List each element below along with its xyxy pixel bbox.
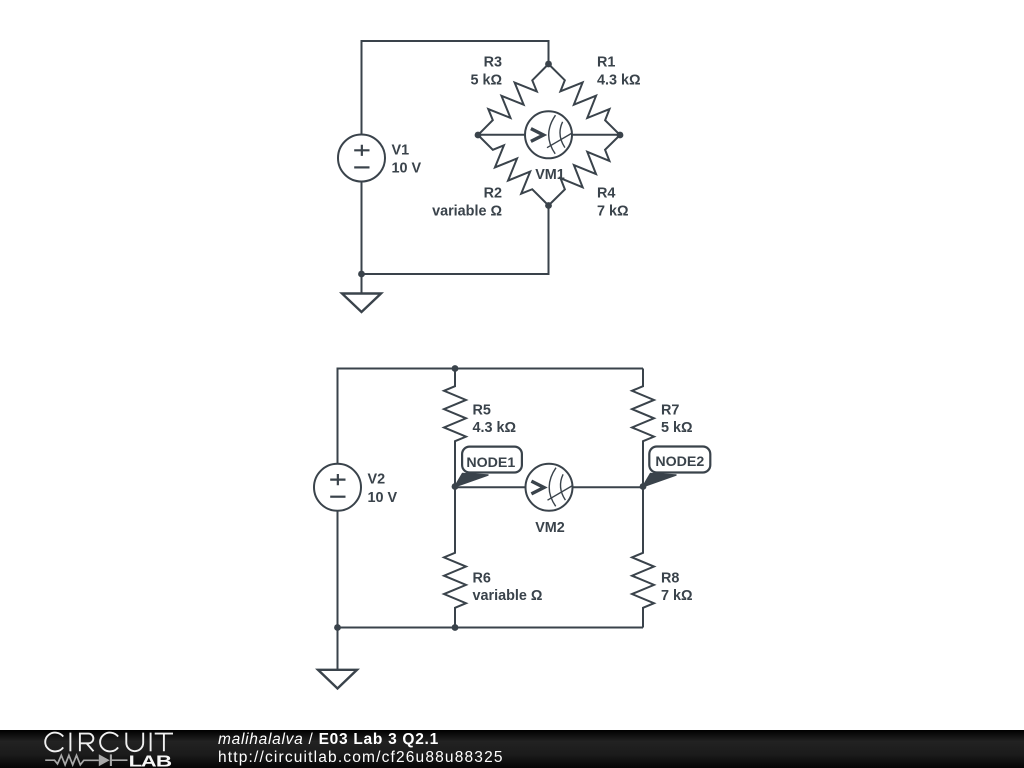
voltage source V1 [338,135,385,182]
svg-text:4.3 kΩ: 4.3 kΩ [473,420,517,436]
svg-text:R2: R2 [484,186,502,202]
resistor R1 [549,64,621,135]
svg-text:V1: V1 [392,142,410,158]
junction NODE2 [640,483,647,490]
svg-text:VM2: VM2 [535,520,565,536]
junction bottom rail V2 [334,624,341,631]
junction bottom rail R6 [452,624,459,631]
svg-text:NODE1: NODE1 [466,455,515,471]
svg-text:4.3 kΩ: 4.3 kΩ [597,72,641,88]
svg-text:variable Ω: variable Ω [432,204,502,220]
svg-text:R5: R5 [473,402,491,418]
voltmeter VM2 [455,464,643,511]
junction bridge top [545,61,552,68]
resistor R5 [444,369,466,487]
svg-text:10 V: 10 V [392,161,422,177]
CircuitLab logo [0,730,220,768]
svg-text:R7: R7 [661,402,679,418]
voltmeter VM1 [478,111,620,158]
svg-text:R1: R1 [597,54,615,70]
svg-text:10 V: 10 V [368,490,398,506]
ground of circuit 1 [342,274,381,312]
ground of circuit 2 [318,628,357,689]
node label NODE2 [643,447,711,487]
svg-text:VM1: VM1 [535,167,565,183]
svg-text:R4: R4 [597,186,615,202]
resistor R7 [632,369,654,487]
resistor R8 [632,487,654,628]
wire V2 bottom rail [338,511,644,628]
junction bridge left [475,132,482,139]
node label NODE1 [455,447,522,487]
svg-text:NODE2: NODE2 [655,454,704,470]
junction top rail [452,365,459,372]
svg-text:R3: R3 [484,54,502,70]
svg-text:B: B [156,753,172,768]
svg-text:7 kΩ: 7 kΩ [661,588,693,604]
svg-text:A: A [141,753,157,768]
junction V1 ground [358,271,365,278]
wire V2 top rail [338,369,644,464]
wire V1 top to bridge top [362,41,549,135]
resistor R4 [549,135,621,206]
footer title [218,731,504,767]
svg-text:V2: V2 [368,472,386,488]
svg-text:5 kΩ: 5 kΩ [661,420,693,436]
svg-text:R8: R8 [661,571,679,587]
resistor R6 [444,487,466,628]
resistor R3 [478,64,549,135]
svg-text:R6: R6 [473,571,491,587]
svg-text:variable Ω: variable Ω [473,588,543,604]
svg-text:5 kΩ: 5 kΩ [470,72,502,88]
wire bridge bottom to V1 bottom [362,182,549,275]
junction NODE1 [452,483,459,490]
resistor R2 [478,135,549,206]
svg-text:7 kΩ: 7 kΩ [597,204,629,220]
junction bridge right [617,132,624,139]
voltage source V2 [314,464,361,511]
junction bridge bottom [545,202,552,209]
